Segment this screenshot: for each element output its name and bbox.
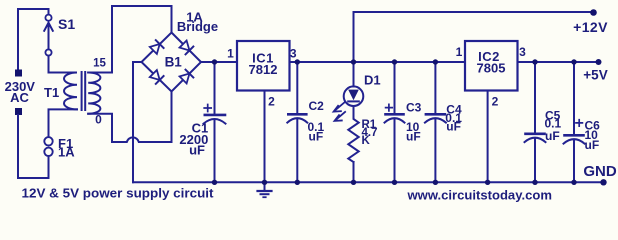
terminal +12V dot xyxy=(590,9,597,16)
IC1 box xyxy=(237,41,290,91)
junction C6 top xyxy=(571,59,576,64)
capacitor C1 branch wire top xyxy=(214,62,216,114)
label C3 10uF xyxy=(406,101,422,144)
diode B1 bottom-left xyxy=(149,70,163,84)
svg-text:K: K xyxy=(362,135,371,147)
label IC2 7805 xyxy=(477,49,506,75)
svg-text:uF: uF xyxy=(189,142,205,157)
svg-text:uF: uF xyxy=(585,138,600,152)
capacitor C6 branch wire top xyxy=(573,62,575,134)
svg-text:D1: D1 xyxy=(364,73,381,88)
capacitor C5 xyxy=(525,134,546,142)
svg-text:15: 15 xyxy=(93,58,106,70)
junction D1 riser xyxy=(351,59,356,64)
wire primary to fuse xyxy=(49,109,78,136)
svg-text:1A: 1A xyxy=(58,145,75,160)
diode B1 bottom-right xyxy=(179,70,193,84)
ground symbol xyxy=(258,182,272,197)
junction C4 bottom xyxy=(433,180,438,185)
transformer T1 primary winding xyxy=(64,73,77,110)
junction C4 top xyxy=(433,59,438,64)
svg-text:uF: uF xyxy=(545,129,560,143)
wire R1 to ground rail xyxy=(353,162,355,182)
wire AC bottom (lower square down, along bottom, up to fuse) xyxy=(18,115,49,178)
terminal +5V dot xyxy=(596,59,602,65)
capacitor C1 branch wire bottom xyxy=(214,120,216,182)
diode B1 top-right xyxy=(179,40,193,54)
label 1A Bridge xyxy=(177,10,218,35)
svg-text:12V & 5V power supply circuit: 12V & 5V power supply circuit xyxy=(22,186,215,201)
svg-text:7812: 7812 xyxy=(249,62,278,77)
capacitor C3 xyxy=(385,104,405,122)
svg-text:3: 3 xyxy=(290,47,297,61)
label R1 4.7K xyxy=(362,119,378,147)
svg-text:S1: S1 xyxy=(58,16,75,32)
junction C2 bottom xyxy=(295,180,300,185)
junction C3 top xyxy=(392,59,397,64)
svg-text:T1: T1 xyxy=(44,85,59,100)
junction C6 bottom xyxy=(571,180,576,185)
IC2 box xyxy=(465,41,518,91)
capacitor C5 branch wire top xyxy=(534,62,536,133)
diode B1 top-left xyxy=(149,40,163,54)
terminal 230V upper xyxy=(15,70,22,77)
transformer T1 core xyxy=(82,72,86,110)
svg-text:www.circuitstoday.com: www.circuitstoday.com xyxy=(406,187,552,202)
wire IC1 pin2 to ground xyxy=(264,91,266,183)
svg-text:1: 1 xyxy=(227,47,234,61)
capacitor C1 xyxy=(204,105,226,124)
capacitor C3 branch wire top xyxy=(394,62,396,113)
label C2 0.1uF xyxy=(308,99,325,143)
junction R1 bottom xyxy=(351,180,356,185)
capacitor C2 branch wire top xyxy=(296,62,298,113)
switch S1 xyxy=(44,15,53,56)
terminal 230V lower xyxy=(15,108,22,115)
junction C2 top xyxy=(295,59,300,64)
wire AC top (left vertical + top run to S1) xyxy=(18,9,49,69)
svg-text:+12V: +12V xyxy=(573,19,608,35)
LED D1 xyxy=(334,86,364,121)
capacitor C4 xyxy=(425,114,446,122)
label F1 1A xyxy=(58,136,75,160)
terminal GND dot xyxy=(600,179,606,185)
wire IC1 pin3 rail to IC2 pin1 xyxy=(290,61,466,63)
junction IC2 pin2 xyxy=(485,180,490,185)
svg-text:uF: uF xyxy=(309,129,324,143)
junction IC1 pin2 ground xyxy=(262,180,267,185)
capacitor C4 branch wire top xyxy=(434,62,436,113)
svg-text:C3: C3 xyxy=(406,101,422,115)
label IC1 7812 xyxy=(249,51,278,77)
svg-text:+5V: +5V xyxy=(583,68,607,83)
wire secondary 0 tap to bridge bottom (with hop over ground wire) xyxy=(88,93,171,143)
wire IC2 pin2 to ground xyxy=(487,91,489,183)
wire bridge minus to ground rail xyxy=(133,62,142,182)
capacitor C6 xyxy=(564,120,585,144)
capacitor C6 branch wire bottom xyxy=(573,140,575,182)
wire D1 riser branch xyxy=(353,62,355,86)
wire bridge plus to IC1 pin1 xyxy=(201,61,237,63)
junction C5 top xyxy=(532,59,537,64)
fuse F1 xyxy=(44,137,52,156)
wire IC2 pin3 rail to +5V xyxy=(518,61,599,63)
svg-text:2: 2 xyxy=(492,94,499,108)
svg-text:C2: C2 xyxy=(309,99,325,113)
capacitor C2 branch wire bottom xyxy=(296,119,298,182)
svg-text:7805: 7805 xyxy=(477,61,506,76)
svg-text:GND: GND xyxy=(583,163,617,180)
capacitor C4 branch wire bottom xyxy=(434,119,436,182)
svg-text:uF: uF xyxy=(446,120,461,134)
svg-text:0: 0 xyxy=(95,113,102,127)
junction C1 bottom xyxy=(212,180,217,185)
bridge rectifier B1 diamond xyxy=(142,33,202,92)
label C1 2200uF xyxy=(179,120,208,157)
transformer T1 secondary winding xyxy=(88,73,100,114)
label C6 10uF xyxy=(585,119,601,153)
label C4 0.1uF xyxy=(445,103,462,134)
label 230V AC xyxy=(5,79,36,105)
svg-text:B1: B1 xyxy=(165,55,183,70)
capacitor C5 branch wire bottom xyxy=(534,139,536,183)
wire +12V top rail xyxy=(354,12,594,61)
svg-text:AC: AC xyxy=(10,90,29,105)
wire ground bottom rail xyxy=(133,181,603,183)
junction C5 bottom xyxy=(532,180,537,185)
junction C3 bottom xyxy=(392,180,397,185)
label C5 0.1uF xyxy=(545,109,562,144)
capacitor C2 xyxy=(287,114,307,122)
wire S1 to transformer primary xyxy=(49,56,66,73)
junction bridge plus / C1 xyxy=(212,59,217,64)
svg-text:1: 1 xyxy=(456,45,463,59)
svg-text:2: 2 xyxy=(268,94,275,108)
svg-text:Bridge: Bridge xyxy=(177,19,218,34)
svg-text:uF: uF xyxy=(406,130,421,144)
wire secondary 15 tap to bridge top xyxy=(88,6,171,73)
resistor R1 xyxy=(348,106,358,162)
svg-text:3: 3 xyxy=(519,45,526,59)
capacitor C3 branch wire bottom xyxy=(394,119,396,182)
